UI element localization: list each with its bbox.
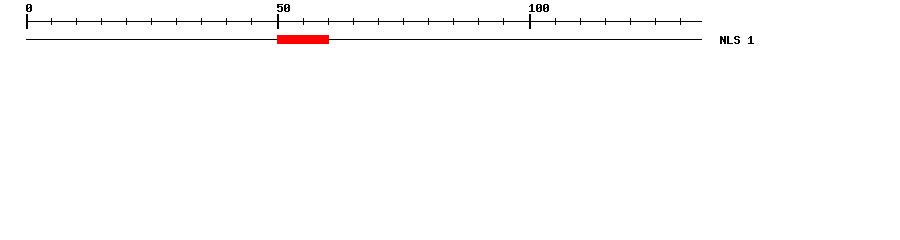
major tick 50 — [277, 14, 279, 29]
ruler label 0 — [26, 4, 32, 12]
ruler label 50 — [277, 4, 290, 12]
sequence feature ruler diagram 900x58 — [0, 0, 900, 58]
feature box NLS 1 (red) — [277, 35, 329, 44]
major tick 0 — [26, 14, 28, 29]
major tick 100 — [529, 14, 531, 29]
ruler label 100 — [529, 4, 549, 12]
feature label NLS 1 — [720, 36, 754, 44]
background — [0, 0, 900, 58]
ruler axis line — [26, 21, 702, 22]
sequence line — [26, 39, 702, 40]
minor ticks every 5 units — [51, 18, 52, 25]
